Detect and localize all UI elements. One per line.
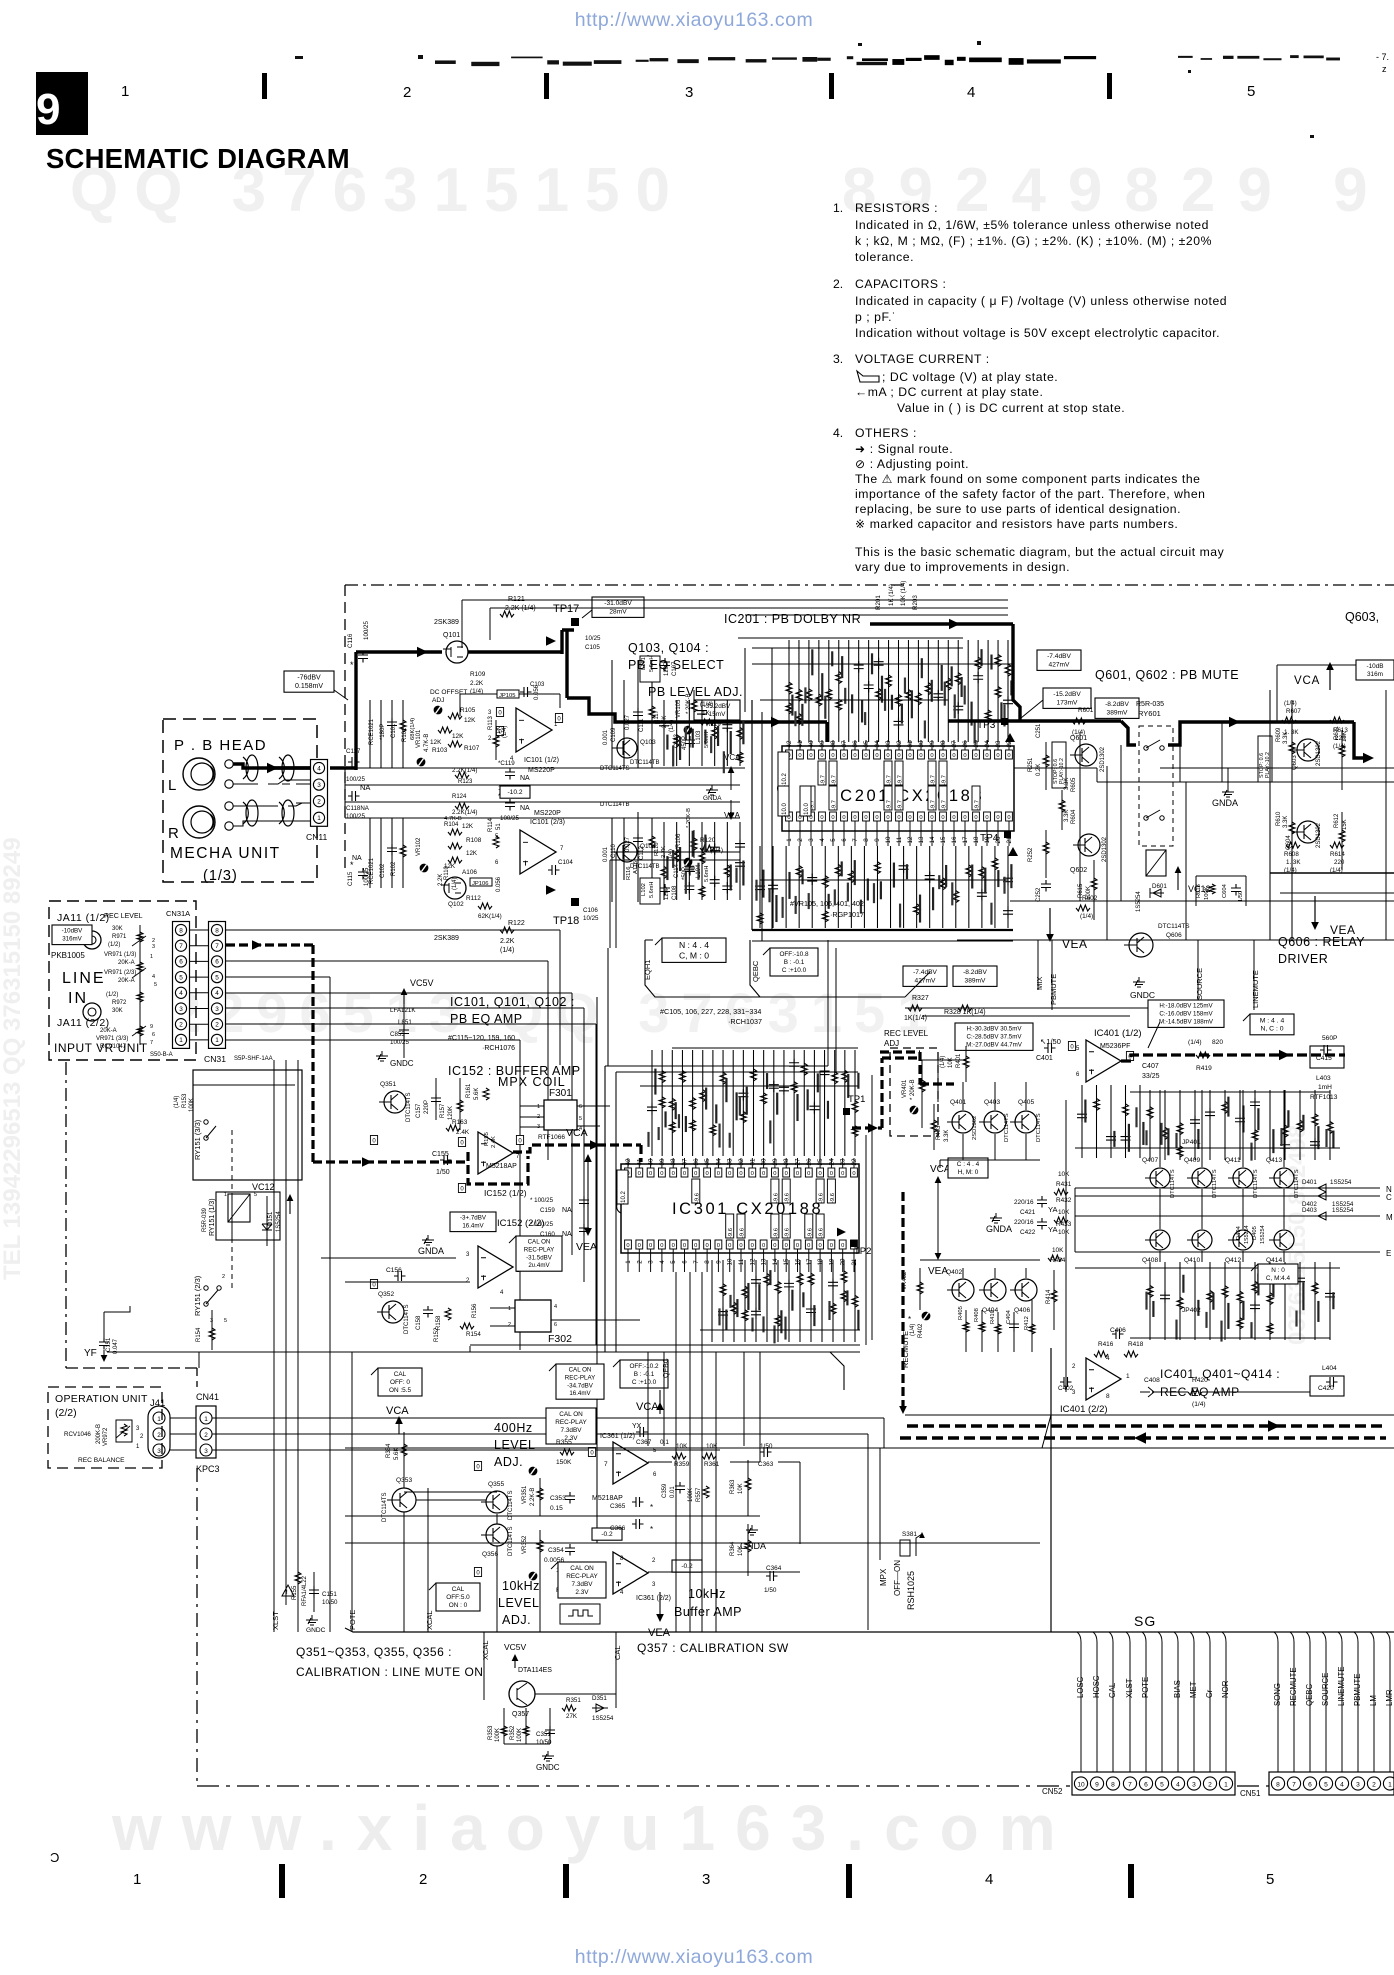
resistor R615 bbox=[1078, 860, 1097, 920]
svg-text:0: 0 bbox=[751, 1171, 754, 1177]
svg-text:DTC114TS: DTC114TS bbox=[1170, 1169, 1176, 1198]
svg-text:0.001: 0.001 bbox=[603, 846, 609, 862]
svg-text:SOURCE: SOURCE bbox=[1195, 968, 1204, 1000]
svg-text:C353: C353 bbox=[550, 1495, 566, 1502]
svg-text:VR401: VR401 bbox=[902, 1079, 908, 1098]
svg-text:11: 11 bbox=[896, 836, 903, 843]
wires above IC201 long bbox=[462, 600, 1008, 648]
svg-text:-9.7: -9.7 bbox=[942, 775, 948, 785]
svg-text:L851: L851 bbox=[398, 1019, 412, 1026]
jack circle top bbox=[83, 931, 101, 949]
ground GNDC right bbox=[1130, 977, 1155, 1000]
svg-text:16.4mV: 16.4mV bbox=[462, 1223, 484, 1230]
transistor Q602 bbox=[1070, 834, 1108, 874]
svg-text:5: 5 bbox=[830, 838, 837, 842]
svg-text:0: 0 bbox=[919, 815, 922, 821]
svg-text:CAL: CAL bbox=[452, 1586, 465, 1593]
svg-text:3: 3 bbox=[152, 944, 155, 950]
svg-text:10K: 10K bbox=[1058, 1209, 1070, 1216]
svg-text:220P: 220P bbox=[424, 1100, 430, 1114]
capacitors C421 C422 bbox=[1014, 1196, 1057, 1236]
svg-text:IN: IN bbox=[68, 990, 88, 1007]
svg-text:427mV: 427mV bbox=[915, 977, 936, 984]
IC301 top pin row bbox=[617, 1158, 858, 1205]
svg-text:C: C bbox=[1386, 1193, 1392, 1202]
capacitor C401 bbox=[1036, 1037, 1061, 1062]
svg-text:38: 38 bbox=[670, 1158, 677, 1165]
svg-text:D151: D151 bbox=[268, 1211, 274, 1226]
label IC201 PB DOLBY NR bbox=[724, 612, 861, 626]
svg-text:www.xiaoyu163.com: www.xiaoyu163.com bbox=[111, 1792, 1076, 1864]
svg-text:RESISTORS :: RESISTORS : bbox=[855, 201, 938, 215]
svg-text:389mV: 389mV bbox=[965, 977, 986, 984]
svg-text:R122: R122 bbox=[508, 920, 525, 927]
svg-text:Q412: Q412 bbox=[1225, 1257, 1241, 1264]
svg-text:DTC114TS: DTC114TS bbox=[1253, 1169, 1259, 1198]
svg-text:CAL ON: CAL ON bbox=[569, 1367, 592, 1374]
svg-text:0: 0 bbox=[941, 815, 944, 821]
resistor R121 bbox=[500, 596, 536, 617]
svg-text:MECHA UNIT: MECHA UNIT bbox=[170, 845, 281, 862]
transistors Q401 Q403 Q405 bbox=[947, 1099, 1042, 1142]
svg-text:1/50: 1/50 bbox=[1238, 891, 1244, 902]
label LINE IN bbox=[62, 970, 106, 1007]
label STOP PLAY box 1 bbox=[1052, 742, 1066, 788]
svg-text:7: 7 bbox=[604, 1461, 608, 1468]
svg-text:MS220P: MS220P bbox=[534, 810, 561, 817]
svg-text:R609: R609 bbox=[1276, 727, 1282, 742]
svg-text:R118: R118 bbox=[654, 843, 660, 856]
svg-text:Q606 : RELAY: Q606 : RELAY bbox=[1278, 935, 1365, 949]
svg-text:N : 0: N : 0 bbox=[1271, 1267, 1285, 1274]
svg-text:0: 0 bbox=[762, 1243, 765, 1249]
svg-text:1: 1 bbox=[150, 954, 153, 960]
svg-text:2: 2 bbox=[403, 84, 411, 101]
wire bold Q101 to TP17 bbox=[468, 630, 574, 654]
svg-text:0: 0 bbox=[853, 815, 856, 821]
svg-text:0: 0 bbox=[853, 753, 856, 759]
svg-text:C251: C251 bbox=[1036, 723, 1042, 738]
svg-text:0: 0 bbox=[649, 1171, 652, 1177]
resistor R103 12K bbox=[430, 727, 464, 754]
svg-text:1S5254: 1S5254 bbox=[276, 1211, 282, 1232]
label -10dB box cut bbox=[1356, 660, 1394, 680]
svg-text:3: 3 bbox=[685, 84, 693, 101]
svg-text:400Hz: 400Hz bbox=[494, 1421, 533, 1435]
svg-text:2: 2 bbox=[508, 1322, 511, 1328]
svg-text:3: 3 bbox=[648, 1260, 655, 1264]
svg-text:(1/4): (1/4) bbox=[940, 1056, 946, 1068]
svg-text:0: 0 bbox=[672, 1243, 675, 1249]
left column RCE1021 upper bbox=[369, 700, 416, 768]
diode D601 bbox=[1136, 883, 1167, 912]
svg-text:C407: C407 bbox=[1142, 1063, 1159, 1070]
svg-text:DTC114TS: DTC114TS bbox=[1212, 1169, 1218, 1198]
resistor R112 62K bbox=[466, 895, 502, 920]
label IC152 2/2 bbox=[450, 1212, 545, 1232]
svg-text:22: 22 bbox=[851, 1158, 858, 1165]
svg-text:20K-A: 20K-A bbox=[118, 960, 135, 966]
svg-text:0: 0 bbox=[717, 1171, 720, 1177]
svg-text:R108: R108 bbox=[466, 837, 482, 844]
label -7.4dBV box bottom bbox=[903, 966, 947, 986]
svg-text:B : -0.1: B : -0.1 bbox=[784, 959, 805, 966]
op-amp IC401-1 bbox=[1068, 1040, 1133, 1082]
svg-text:10/50: 10/50 bbox=[322, 1599, 338, 1606]
svg-text:Q355: Q355 bbox=[488, 1481, 504, 1488]
svg-text:0: 0 bbox=[773, 1171, 776, 1177]
transistor Q357 circuit bbox=[481, 1632, 622, 1772]
svg-text:4: 4 bbox=[215, 990, 219, 997]
label OFF box IC201 bbox=[763, 948, 818, 976]
svg-text:10K: 10K bbox=[676, 1443, 688, 1450]
svg-text:MS220P: MS220P bbox=[528, 767, 555, 774]
svg-text:ON :5.5: ON :5.5 bbox=[389, 1387, 411, 1394]
svg-text:-9.7: -9.7 bbox=[832, 800, 838, 810]
svg-text:(2/2): (2/2) bbox=[55, 1407, 77, 1419]
pb eq select extra parts bbox=[659, 700, 745, 900]
resistor R607 bbox=[1282, 700, 1301, 736]
svg-text:-9.6: -9.6 bbox=[773, 1228, 779, 1238]
svg-text:TP1: TP1 bbox=[848, 1094, 865, 1105]
svg-text:5: 5 bbox=[1324, 1781, 1328, 1788]
svg-text:100/25: 100/25 bbox=[346, 813, 365, 820]
svg-text:1/50: 1/50 bbox=[436, 1169, 450, 1176]
svg-text:D351: D351 bbox=[592, 1695, 607, 1702]
svg-text:-9.6: -9.6 bbox=[728, 1228, 734, 1238]
svg-text:18: 18 bbox=[817, 1258, 824, 1265]
svg-text:GNDA: GNDA bbox=[986, 1224, 1012, 1234]
resistor R107 bbox=[448, 741, 480, 752]
svg-text:2296513 QQ 3763151: 2296513 QQ 3763151 bbox=[170, 981, 940, 1044]
svg-text:R353: R353 bbox=[488, 1725, 494, 1740]
op-amp IC361-1 bbox=[588, 1433, 657, 1502]
svg-text:(1/4): (1/4) bbox=[174, 1096, 180, 1108]
svg-text:5.6mH: 5.6mH bbox=[649, 882, 655, 898]
svg-text:*: * bbox=[650, 1503, 653, 1512]
svg-text:C421: C421 bbox=[1020, 1209, 1036, 1216]
svg-text:820: 820 bbox=[1212, 1039, 1223, 1046]
svg-text:10: 10 bbox=[1077, 1781, 1085, 1788]
svg-text:-9.6: -9.6 bbox=[740, 1228, 746, 1238]
svg-text:DTA114ES: DTA114ES bbox=[518, 1667, 552, 1674]
transistor Q604 right bbox=[1286, 821, 1322, 850]
svg-text:0: 0 bbox=[908, 753, 911, 759]
svg-text:2SD1302: 2SD1302 bbox=[972, 1116, 978, 1140]
svg-text:10: 10 bbox=[885, 836, 892, 843]
transistor Q605 right bbox=[1292, 739, 1322, 770]
svg-text:1: 1 bbox=[317, 815, 321, 822]
svg-text:Q406: Q406 bbox=[1014, 1307, 1030, 1314]
svg-text:2: 2 bbox=[222, 1274, 225, 1280]
svg-text:DTC114TS: DTC114TS bbox=[406, 1092, 412, 1122]
svg-text:R105: R105 bbox=[460, 707, 476, 714]
svg-text:100K: 100K bbox=[1086, 886, 1092, 900]
svg-text:(1/4): (1/4) bbox=[910, 1324, 916, 1336]
svg-text:14: 14 bbox=[929, 836, 936, 843]
rec eq lower component cluster bbox=[1075, 1262, 1340, 1342]
svg-text:1/50: 1/50 bbox=[760, 1443, 773, 1450]
R616 C604 block bbox=[1196, 876, 1246, 906]
svg-text:M: M bbox=[1386, 1213, 1393, 1222]
svg-text:R607: R607 bbox=[1286, 708, 1301, 715]
capacitor C120 bbox=[498, 793, 530, 822]
label -10.2 box bbox=[500, 786, 530, 798]
svg-text:2SD1302: 2SD1302 bbox=[1316, 822, 1322, 848]
svg-text:0.027: 0.027 bbox=[625, 836, 631, 852]
svg-text:C252: C252 bbox=[1036, 887, 1042, 902]
svg-text:3: 3 bbox=[808, 838, 815, 842]
svg-text:16.4mV: 16.4mV bbox=[569, 1390, 591, 1397]
wire bold CN11 to Q101 bbox=[330, 647, 442, 770]
svg-text:12K: 12K bbox=[466, 850, 478, 857]
svg-text:C117: C117 bbox=[346, 748, 361, 755]
label 2SK389 top bbox=[434, 619, 459, 626]
svg-text:0: 0 bbox=[820, 815, 823, 821]
svg-text:0: 0 bbox=[694, 1243, 697, 1249]
svg-text:173mV: 173mV bbox=[1057, 699, 1078, 706]
svg-text:0: 0 bbox=[985, 753, 988, 759]
svg-text:0: 0 bbox=[717, 1243, 720, 1249]
svg-text:8: 8 bbox=[1276, 1781, 1280, 1788]
svg-text:VC5V: VC5V bbox=[410, 978, 434, 988]
svg-text:1: 1 bbox=[508, 1306, 511, 1312]
svg-text:0: 0 bbox=[705, 1243, 708, 1249]
transistor Q352 bbox=[370, 1280, 451, 1335]
svg-text:32: 32 bbox=[738, 1158, 745, 1165]
resistor R403 bbox=[931, 1104, 950, 1150]
svg-text:-9.7: -9.7 bbox=[821, 775, 827, 785]
svg-text:1: 1 bbox=[625, 1260, 632, 1264]
resistor R123 bbox=[452, 767, 477, 785]
svg-text:389mV: 389mV bbox=[1107, 709, 1128, 716]
svg-text:tolerance.: tolerance. bbox=[855, 250, 914, 264]
svg-text:Q101: Q101 bbox=[443, 632, 460, 639]
connector CN31 bbox=[204, 922, 273, 1065]
capacitor C364 bbox=[764, 1565, 782, 1594]
svg-text:LMR: LMR bbox=[1385, 1689, 1394, 1706]
wires pb mute verticals bbox=[1080, 722, 1222, 940]
svg-text:2: 2 bbox=[419, 1871, 427, 1888]
svg-text:RSH1025: RSH1025 bbox=[906, 1571, 916, 1610]
svg-text:GNDA: GNDA bbox=[418, 1246, 444, 1256]
label VCA VEA arrows mid bbox=[566, 1127, 597, 1253]
svg-text:4.: 4. bbox=[833, 426, 843, 440]
resistor labels above IC201 bbox=[875, 581, 919, 610]
svg-text:4: 4 bbox=[179, 990, 183, 997]
svg-text:0: 0 bbox=[864, 815, 867, 821]
svg-text:12K: 12K bbox=[462, 823, 474, 830]
svg-text:C:-28.5dBV 37.5mV: C:-28.5dBV 37.5mV bbox=[966, 1034, 1022, 1041]
svg-text:C115: C115 bbox=[347, 871, 354, 886]
svg-text:3: 3 bbox=[204, 1448, 208, 1455]
relay RY601 bbox=[1136, 701, 1173, 876]
svg-text:R104: R104 bbox=[444, 822, 459, 828]
svg-text:RCV1046: RCV1046 bbox=[64, 1431, 91, 1438]
label -76dBV box bbox=[284, 671, 348, 700]
label VCA under IC301 bbox=[636, 1390, 664, 1414]
svg-text:Q410: Q410 bbox=[1184, 1257, 1200, 1264]
svg-text:Buffer AMP: Buffer AMP bbox=[674, 1605, 742, 1619]
svg-text:S50-B-A: S50-B-A bbox=[150, 1052, 173, 1058]
svg-text:10K (1/4): 10K (1/4) bbox=[900, 581, 907, 606]
label -7.4dBV box right bbox=[1037, 650, 1081, 670]
test point TP2 bbox=[837, 1228, 871, 1257]
svg-text:VR102: VR102 bbox=[416, 837, 422, 856]
svg-text:0: 0 bbox=[660, 1243, 663, 1249]
svg-text:SOURCE: SOURCE bbox=[1321, 1673, 1330, 1706]
svg-text:41: 41 bbox=[797, 740, 804, 747]
svg-text:9: 9 bbox=[1095, 1781, 1099, 1788]
svg-text:PB LEVEL ADJ.: PB LEVEL ADJ. bbox=[648, 685, 743, 699]
svg-text:GNDA: GNDA bbox=[1212, 798, 1238, 808]
wire L hot bold bbox=[233, 763, 316, 774]
label -10dBV box line in bbox=[52, 925, 92, 945]
resistor R414 R416 R418 bbox=[1046, 1270, 1144, 1357]
resistor R420 bbox=[1152, 1377, 1310, 1408]
svg-text:1. 3K: 1. 3K bbox=[1286, 859, 1301, 866]
svg-text:2: 2 bbox=[157, 1432, 161, 1439]
svg-text:41: 41 bbox=[636, 1158, 643, 1165]
label OPERATION UNIT bbox=[55, 1393, 165, 1419]
svg-text:3: 3 bbox=[702, 1871, 710, 1888]
transistor Q103 bbox=[612, 738, 660, 766]
svg-text:4: 4 bbox=[1340, 1781, 1344, 1788]
CN51 drop wires bbox=[1273, 1632, 1394, 1776]
svg-text:18: 18 bbox=[973, 836, 980, 843]
diode rail E bbox=[1075, 1225, 1391, 1284]
svg-text:OFF: 0: OFF: 0 bbox=[390, 1379, 410, 1386]
svg-text:RCE1021: RCE1021 bbox=[369, 718, 375, 745]
svg-text:Q403: Q403 bbox=[984, 1099, 1000, 1106]
IC301 body bbox=[617, 1164, 859, 1253]
svg-text:R433: R433 bbox=[1056, 1221, 1072, 1228]
diode rail M bbox=[1075, 1207, 1393, 1222]
svg-text:NA: NA bbox=[520, 805, 530, 812]
svg-text:15mV: 15mV bbox=[709, 711, 726, 718]
svg-text:IC101, Q101, Q102 :: IC101, Q101, Q102 : bbox=[450, 995, 575, 1009]
svg-text:-9.6: -9.6 bbox=[819, 1228, 825, 1238]
svg-text:VR971 (1/3): VR971 (1/3) bbox=[104, 952, 136, 958]
svg-text:2: 2 bbox=[152, 938, 155, 944]
svg-text:CAL ON: CAL ON bbox=[528, 1239, 551, 1246]
connector CN51 bbox=[1240, 1772, 1394, 1798]
svg-text:C366: C366 bbox=[610, 1525, 626, 1532]
svg-text:CN31A: CN31A bbox=[166, 909, 190, 918]
svg-text:0: 0 bbox=[897, 815, 900, 821]
svg-text:3.3K: 3.3K bbox=[1064, 810, 1070, 822]
svg-text:DTC114TS: DTC114TS bbox=[1158, 923, 1190, 930]
svg-text:N, C : 0: N, C : 0 bbox=[1260, 1026, 1283, 1033]
svg-text:p ; pF.˙: p ; pF.˙ bbox=[855, 310, 897, 324]
svg-text:6: 6 bbox=[179, 959, 183, 966]
svg-text:-9.7: -9.7 bbox=[931, 800, 937, 810]
svg-text:-10.0: -10.0 bbox=[782, 803, 788, 817]
resistor R124 bbox=[452, 794, 477, 816]
svg-text:OFF:-10.2: OFF:-10.2 bbox=[629, 1363, 659, 1370]
svg-text:5: 5 bbox=[1247, 83, 1255, 100]
label IC401 1/2 bbox=[1094, 1028, 1142, 1050]
label -10.2 pin42 bbox=[778, 752, 789, 787]
watermark vertical right bbox=[1284, 1125, 1311, 1345]
capacitors C365 C366 bbox=[610, 1497, 653, 1534]
svg-text:R251: R251 bbox=[1028, 757, 1034, 772]
svg-text:Q401: Q401 bbox=[950, 1099, 966, 1106]
svg-text:7: 7 bbox=[693, 1260, 700, 1264]
svg-text:IC152 (2/2): IC152 (2/2) bbox=[497, 1218, 545, 1229]
svg-text:-9.7: -9.7 bbox=[887, 800, 893, 810]
label CAL box left bbox=[371, 1368, 422, 1396]
svg-text:1: 1 bbox=[179, 1037, 183, 1044]
svg-text:2.: 2. bbox=[833, 277, 843, 291]
capacitor C116 bbox=[347, 621, 370, 670]
svg-text:-15.2dBV: -15.2dBV bbox=[1053, 691, 1081, 698]
wire bold into IC201 bbox=[655, 717, 827, 742]
svg-text:10K: 10K bbox=[738, 1483, 744, 1494]
label CAL ON box mid bbox=[509, 1236, 562, 1271]
svg-text:4: 4 bbox=[1106, 1355, 1110, 1362]
svg-text:Q103: Q103 bbox=[640, 739, 656, 746]
svg-text:R351: R351 bbox=[566, 1697, 581, 1704]
svg-text:1S5254: 1S5254 bbox=[592, 1715, 614, 1722]
svg-text:17: 17 bbox=[806, 1258, 813, 1265]
svg-text:C, M:4.4: C, M:4.4 bbox=[1266, 1275, 1291, 1282]
svg-text:R152: R152 bbox=[434, 1327, 440, 1342]
svg-text:27K: 27K bbox=[566, 1713, 578, 1720]
transistor Q356 bbox=[474, 1524, 514, 1577]
svg-text:ADJ: ADJ bbox=[432, 697, 444, 704]
svg-text:Q601: Q601 bbox=[1070, 735, 1087, 742]
svg-text:QEBC: QEBC bbox=[751, 960, 760, 982]
svg-text:12K: 12K bbox=[464, 717, 476, 724]
svg-text:3: 3 bbox=[157, 1448, 161, 1455]
svg-text:1: 1 bbox=[215, 1037, 219, 1044]
svg-text:6: 6 bbox=[152, 1032, 155, 1038]
svg-text:1: 1 bbox=[204, 1416, 208, 1423]
svg-text:0: 0 bbox=[963, 815, 966, 821]
svg-text:CAL: CAL bbox=[1108, 1682, 1117, 1698]
svg-text:0: 0 bbox=[807, 1171, 810, 1177]
svg-text:0: 0 bbox=[908, 815, 911, 821]
svg-text:CN11: CN11 bbox=[306, 832, 328, 842]
svg-text:R604: R604 bbox=[1071, 809, 1077, 824]
svg-text:8: 8 bbox=[215, 927, 219, 934]
svg-text:Q601, Q602 : PB MUTE: Q601, Q602 : PB MUTE bbox=[1095, 668, 1239, 682]
resistor R604 bbox=[1059, 790, 1077, 830]
svg-text:30: 30 bbox=[918, 740, 925, 747]
svg-text:(1/4): (1/4) bbox=[502, 726, 508, 738]
svg-text:IC201 CX20188: IC201 CX20188 bbox=[833, 787, 984, 805]
resistor R364 bbox=[730, 1524, 751, 1576]
svg-text:RECMUTE: RECMUTE bbox=[901, 1331, 910, 1368]
svg-text:R201: R201 bbox=[875, 595, 882, 610]
svg-text:LOSC: LOSC bbox=[1076, 1676, 1085, 1698]
svg-text:NA: NA bbox=[520, 775, 530, 782]
top ruler ticks bbox=[121, 73, 1255, 101]
resistor R355 bbox=[529, 1439, 574, 1475]
svg-text:316mV: 316mV bbox=[62, 936, 82, 943]
svg-text:DTC114TB: DTC114TB bbox=[630, 760, 660, 766]
svg-text:10K: 10K bbox=[1058, 1171, 1070, 1178]
label PB LEVEL ADJ bbox=[648, 685, 743, 699]
svg-text:R5R-035: R5R-035 bbox=[1136, 701, 1164, 708]
svg-text:R116: R116 bbox=[626, 867, 632, 880]
wires rec block verticals bbox=[920, 1060, 1284, 1278]
svg-text:importance of the safety f: importance of the safety factor of the p… bbox=[855, 487, 1206, 501]
svg-text:R5R-039: R5R-039 bbox=[202, 1207, 208, 1232]
svg-text:26: 26 bbox=[806, 1158, 813, 1165]
svg-text:R361: R361 bbox=[704, 1461, 720, 1468]
